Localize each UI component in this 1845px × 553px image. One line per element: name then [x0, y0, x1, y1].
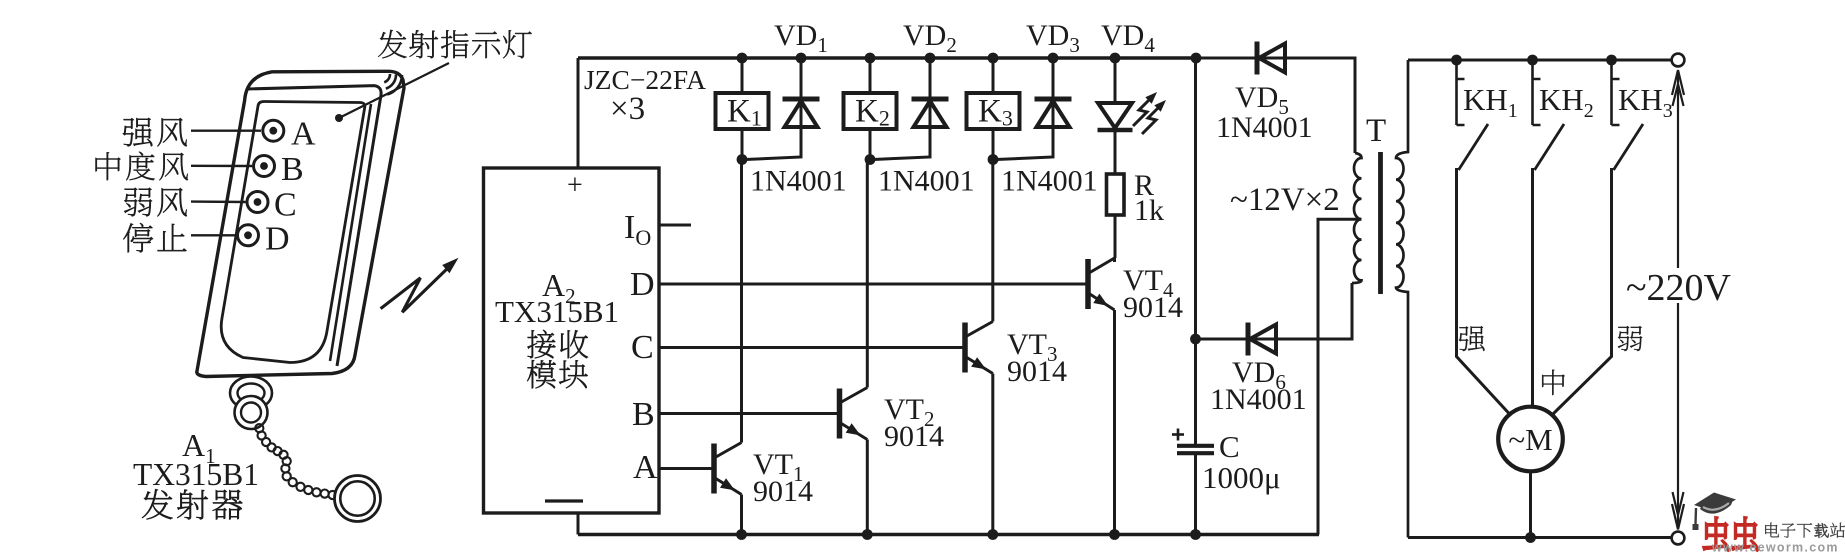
svg-text:TX315B1: TX315B1: [133, 457, 259, 492]
switch KH2 fixed contact: [1533, 60, 1541, 125]
wire rail to diode VD2: [929, 58, 932, 97]
switch KH3 fixed contact: [1612, 60, 1620, 125]
svg-text:1k: 1k: [1134, 194, 1164, 227]
node: K3/VD3/VT collector junction: [988, 154, 999, 165]
transistor VT1 9014: [711, 444, 717, 494]
svg-text:~M: ~M: [1508, 422, 1552, 457]
svg-text:B: B: [632, 396, 655, 433]
switch KH1 blade: [1459, 124, 1489, 170]
relay K1 coil box: [716, 93, 769, 129]
wire rail to LED VD4: [1114, 58, 1117, 103]
wire relay K1 to node: [741, 129, 744, 159]
wire KH3 to motor: [1553, 168, 1612, 414]
wire VD6 to transformer secondary bottom: [1276, 283, 1352, 339]
svg-text:~12V×2: ~12V×2: [1230, 182, 1340, 218]
node: rail junction VD1: [796, 53, 807, 64]
node: rail junction K1: [737, 53, 748, 64]
wire pin B to VT2 base: [659, 412, 838, 415]
svg-text:1N4001: 1N4001: [1001, 165, 1098, 198]
keyring loop 1: [230, 377, 272, 410]
switch KH2 blade: [1535, 124, 1565, 170]
radio wave lightning arrow: [381, 264, 452, 312]
button B: [254, 156, 275, 177]
svg-text:TX315B1: TX315B1: [495, 294, 619, 329]
transformer T secondary winding (left, ~12Vx2): [1354, 153, 1362, 219]
wire VT2 collector up to K2 node: [866, 160, 869, 388]
label 发射器: [142, 489, 173, 519]
button A: [263, 120, 284, 141]
wire resistor R to VT4 collector: [1114, 215, 1117, 258]
svg-text:1N4001: 1N4001: [750, 165, 847, 198]
label 强: [1459, 326, 1485, 351]
diode VD1 1N4001 flyback: [800, 99, 803, 127]
watermark 电子下载站: [1765, 523, 1779, 538]
wire pin C to VT3 base: [659, 346, 964, 349]
node: rail junction VD2: [925, 53, 936, 64]
top mains terminal: [1672, 54, 1685, 67]
label 强风: [123, 118, 153, 147]
capacitor + mark: [1172, 433, 1184, 436]
wire rail to diode VD1: [800, 58, 803, 97]
wire diode VD2 anode to node: [873, 127, 930, 160]
node: rail junction K3: [988, 53, 999, 64]
transmitter body outline: [197, 71, 404, 376]
svg-text:1N4001: 1N4001: [878, 165, 975, 198]
wire VT3 emitter to bottom rail: [991, 374, 994, 535]
label line D: [191, 234, 236, 236]
LED emission arrows: [1133, 96, 1153, 126]
top mains rail: [1408, 59, 1672, 62]
svg-text:9014: 9014: [1007, 355, 1067, 388]
label 弱: [1618, 326, 1643, 351]
wire rail to relay K1: [741, 58, 744, 93]
label line C: [191, 200, 246, 203]
node: rail junction VD3: [1048, 53, 1059, 64]
watermark graduation cap: [1694, 493, 1736, 513]
label 停止: [123, 223, 153, 252]
wire rail to diode VD3: [1052, 58, 1055, 97]
transistor VT2 9014: [837, 389, 843, 439]
node: KH2 rail junction: [1527, 55, 1538, 66]
wire VD5 to transformer secondary top: [1285, 58, 1355, 153]
diode VD6 1N4001: [1196, 338, 1248, 341]
wire motor to bottom rail: [1529, 473, 1532, 538]
svg-text:1N4001: 1N4001: [1216, 111, 1313, 144]
node: rail junction K2: [865, 53, 876, 64]
svg-text:www.eeworm.com: www.eeworm.com: [1711, 541, 1839, 553]
svg-text:T: T: [1366, 113, 1386, 149]
bottom mains terminal: [1672, 532, 1685, 545]
label line B: [191, 165, 252, 168]
wire LED to resistor R: [1114, 130, 1117, 174]
wire relay K2 to node: [869, 129, 872, 159]
wire: receiver - to bottom rail: [577, 513, 580, 535]
svg-text:C: C: [631, 329, 654, 366]
label line A: [191, 129, 261, 131]
wire pin D to VT4 base: [659, 283, 1087, 286]
node: rail right junction: [1191, 53, 1202, 64]
transmitter top face edge: [247, 86, 381, 366]
node: KH3 rail junction: [1606, 55, 1617, 66]
transformer core: [1378, 152, 1383, 294]
relay K2 coil box: [844, 93, 897, 129]
wire rail to relay K3: [992, 58, 995, 93]
svg-text:9014: 9014: [1123, 291, 1183, 324]
button C: [247, 192, 268, 213]
wire VD6 node to capacitor C: [1194, 339, 1197, 444]
wire VT4 collector up to R: [1113, 258, 1116, 262]
svg-text:×3: ×3: [610, 91, 645, 127]
diode VD5 1N4001: [1196, 57, 1256, 60]
transistor VT3 9014: [962, 323, 968, 373]
wire VT1 emitter to bottom rail: [740, 495, 743, 535]
svg-text:D: D: [630, 266, 655, 303]
wire relay K3 to node: [992, 129, 995, 159]
pin IO stub wire: [659, 224, 691, 227]
node: KH1 rail junction: [1451, 55, 1462, 66]
keypad recess U-shape: [221, 102, 365, 363]
node: VD6 junction: [1190, 334, 1201, 345]
diode VD3 1N4001 flyback: [1052, 99, 1055, 127]
wire VT2 emitter to bottom rail: [866, 440, 869, 535]
button D: [238, 225, 259, 246]
top positive rail: [578, 56, 1197, 60]
wire rail to relay K2: [869, 58, 872, 93]
node: K2/VD2/VT collector junction: [865, 154, 876, 165]
label 中度风: [96, 152, 121, 180]
wire KH1 to motor: [1457, 168, 1510, 414]
switch KH3 blade: [1614, 124, 1644, 170]
label 中: [1542, 370, 1565, 395]
wire pin A to VT1 base: [659, 467, 713, 470]
wire capacitor to bottom rail: [1194, 453, 1197, 534]
svg-text:+: +: [567, 170, 583, 201]
LED VD4: [1098, 128, 1133, 133]
label 弱风: [124, 188, 152, 217]
wire rail down to VD6 node: [1194, 58, 1197, 339]
indicator pointer line and dot: [335, 114, 343, 122]
transformer center tap wire: [1318, 219, 1362, 534]
node: K1/VD1/VT collector junction: [737, 154, 748, 165]
switch KH1 fixed contact: [1457, 60, 1465, 125]
wire diode VD3 anode to node: [996, 127, 1053, 160]
~220V arrow line: [1677, 70, 1679, 268]
wire diode VD1 anode to node: [745, 127, 801, 160]
wire: receiver + to top rail: [577, 58, 580, 168]
svg-text:A: A: [633, 449, 658, 486]
svg-text:C: C: [1219, 429, 1240, 464]
wire VT3 collector up to K3 node: [991, 160, 994, 322]
transformer T primary winding (right): [1396, 60, 1408, 538]
wire KH2 to motor: [1531, 168, 1534, 405]
svg-text:9014: 9014: [753, 475, 813, 508]
svg-text:C: C: [274, 187, 297, 224]
relay K3 coil box: [967, 93, 1020, 129]
label 发射指示灯: [378, 30, 407, 59]
label 接收: [527, 330, 555, 358]
bottom mains rail: [1408, 536, 1671, 539]
key ring: [335, 476, 381, 522]
bottom ground rail: [578, 533, 1319, 537]
receiver module A2 TX315B1 box: [484, 168, 660, 513]
wire VT4 emitter to bottom rail: [1113, 310, 1116, 535]
label 模块: [527, 360, 556, 388]
transmitter inner shell line: [330, 104, 371, 361]
transmitter stacked corner curves: [384, 74, 390, 82]
arrowhead down: [1672, 492, 1684, 530]
svg-text:A: A: [291, 116, 316, 153]
svg-text:D: D: [265, 221, 290, 258]
keyring loop 2: [235, 396, 268, 429]
pin - label: [545, 499, 583, 502]
motor ~M: [1498, 407, 1563, 472]
svg-text:1N4001: 1N4001: [1210, 383, 1307, 416]
svg-text:~220V: ~220V: [1626, 267, 1732, 309]
svg-text:1000μ: 1000μ: [1202, 460, 1281, 495]
node: rail junction VD4: [1110, 53, 1121, 64]
transistor VT4 9014: [1085, 259, 1091, 309]
arrowhead up: [1672, 70, 1684, 106]
watermark 虫虫 red: [1703, 517, 1729, 551]
wire VT1 collector up to K1 node: [740, 160, 743, 443]
bead chain: [255, 424, 263, 432]
svg-text:B: B: [281, 151, 304, 188]
svg-text:9014: 9014: [884, 420, 944, 453]
capacitor C 1000u polarized: [1177, 444, 1214, 448]
diode VD2 1N4001 flyback: [929, 99, 932, 127]
resistor R 1k: [1107, 174, 1125, 215]
